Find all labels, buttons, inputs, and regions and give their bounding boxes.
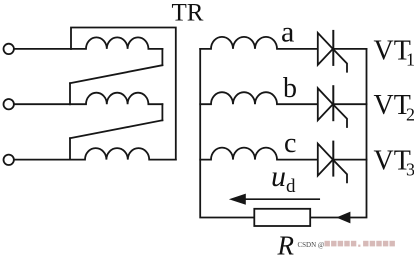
secondary winding a [200, 37, 318, 49]
primary winding W3 [70, 148, 176, 160]
wire diagonal W1 to W2 [70, 65, 162, 83]
wire W3 left end riser [69, 138, 71, 159]
thyristor VT2 gate [333, 104, 347, 127]
secondary winding c [200, 148, 318, 160]
thyristor VT1 triangle [318, 33, 333, 65]
thyristor VT1 cathode bar [332, 31, 334, 65]
wire VT3 to right rail [333, 159, 366, 161]
wire terminal U to winding W1 [14, 48, 71, 50]
wire VT1 to right rail [333, 48, 366, 50]
thyristor VT3 triangle [318, 144, 333, 176]
svg-text:a: a [281, 16, 294, 49]
svg-text:3: 3 [406, 160, 414, 180]
arrow ud direction [240, 198, 319, 200]
svg-text:1: 1 [406, 50, 414, 70]
svg-text:u: u [271, 160, 286, 193]
watermark CSDN [298, 241, 395, 249]
svg-text:CSDN @: CSDN @ [298, 241, 325, 249]
wire top rail of delta primary [71, 28, 176, 160]
terminal V [4, 99, 14, 109]
thyristor VT2 cathode bar [332, 86, 334, 120]
wire W2 left end riser [69, 83, 71, 104]
wire terminal W to winding W3 [14, 159, 70, 161]
wire terminal V to winding W2 [14, 103, 70, 105]
svg-text:TR: TR [172, 0, 204, 27]
wire diagonal W2 to W3 [70, 120, 162, 138]
thyristor VT2 triangle [318, 88, 333, 120]
secondary winding b [200, 92, 318, 104]
svg-text:R: R [277, 231, 295, 258]
primary winding W1 [71, 37, 162, 49]
wire W1 right end drop [161, 49, 163, 65]
svg-text:c: c [284, 128, 296, 159]
resistor R body [254, 209, 310, 226]
thyristor VT1 gate [333, 49, 347, 72]
wire VT2 to right rail [333, 103, 366, 105]
svg-text:b: b [283, 73, 297, 104]
primary winding W2 [70, 93, 162, 105]
terminal U [4, 44, 14, 54]
wire W2 right end drop [161, 104, 163, 120]
wire right cathode rail [310, 49, 366, 218]
terminal W [4, 155, 14, 165]
svg-text:2: 2 [406, 104, 414, 124]
wire secondary left rail [200, 49, 254, 218]
thyristor VT3 gate [333, 160, 347, 183]
svg-text:d: d [286, 176, 296, 197]
thyristor VT3 cathode bar [332, 142, 334, 176]
arrow current into resistor [336, 212, 350, 224]
